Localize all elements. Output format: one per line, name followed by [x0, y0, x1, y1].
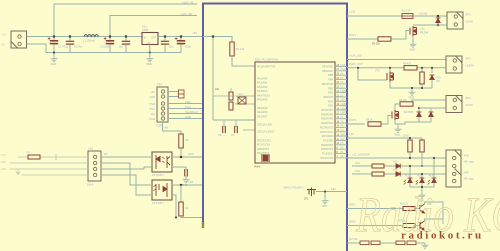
- ground sym JP1: [322, 199, 329, 204]
- svg-text:RB6/PGC: RB6/PGC: [322, 70, 333, 73]
- wire R10 bottom: [409, 152, 411, 158]
- svg-text:R3: R3: [185, 138, 189, 142]
- svg-text:C3 100u: C3 100u: [100, 45, 111, 49]
- wire XP1 pin1: [168, 91, 179, 93]
- wire VT4 collector: [425, 202, 444, 224]
- wire XP4 pin2 diodes: [419, 107, 446, 109]
- svg-text:XP5: XP5: [464, 153, 469, 157]
- ground sym leds: [419, 193, 426, 198]
- svg-text:PGM: PGM: [149, 118, 155, 121]
- svg-text:PGC: PGC: [341, 69, 346, 71]
- svg-text:22p: 22p: [215, 88, 220, 91]
- svg-text:R9 1k: R9 1k: [366, 119, 373, 122]
- resistor R9: [368, 122, 381, 126]
- svg-text:RC4/SDI: RC4/SDI: [323, 139, 333, 142]
- svg-text:PGC: PGC: [150, 108, 156, 111]
- svg-text:RD2/PSP2: RD2/PSP2: [321, 148, 334, 151]
- svg-text:C2 0u1: C2 0u1: [74, 45, 83, 49]
- svg-text:RB2: RB2: [328, 87, 333, 90]
- resistor R12: [372, 164, 384, 168]
- svg-text:Vpp/MCLR: Vpp/MCLR: [185, 110, 198, 114]
- svg-text:U3 PC817: U3 PC817: [152, 201, 165, 205]
- capacitor C5: [164, 37, 166, 42]
- svg-text:+5V: +5V: [341, 100, 346, 102]
- svg-text:DA1: DA1: [142, 25, 148, 29]
- svg-text:4MHz: 4MHz: [254, 166, 261, 169]
- wire gate tap VT2: [358, 68, 387, 80]
- wire LED2 out: [347, 225, 403, 227]
- capacitor C3 electrolytic: [109, 37, 111, 41]
- svg-text:RC3/SCK: RC3/SCK: [322, 153, 333, 156]
- wire +5V tap rail: [110, 16, 197, 37]
- svg-text:RXD: RXD: [188, 152, 194, 156]
- wire +5V inside: [203, 37, 213, 121]
- diode VD1: [437, 16, 439, 25]
- resistor R5 gate: [378, 37, 391, 41]
- connector XP5 4pin: [446, 150, 461, 187]
- svg-text:100u: 100u: [185, 45, 191, 49]
- watermark Radio KOT outline: [355, 186, 500, 242]
- diode VD6: [396, 172, 400, 177]
- wire JP1 gnd branch: [324, 192, 326, 199]
- svg-text:OSC1/CLKIN: OSC1/CLKIN: [257, 124, 272, 127]
- MCU DD1 box: [255, 62, 335, 163]
- capacitor C7: [185, 169, 188, 176]
- svg-text:R4: R4: [185, 206, 189, 210]
- resistor R2a: [229, 92, 233, 100]
- wire osc2: [248, 129, 255, 131]
- wire zv to gnd: [416, 242, 425, 244]
- svg-text:RB5: RB5: [328, 74, 333, 77]
- resistor R7 pulldown: [421, 68, 423, 72]
- resistor on cable: [28, 155, 40, 159]
- svg-text:LOAD: LOAD: [466, 19, 473, 23]
- svg-text:7805: 7805: [142, 28, 148, 32]
- svg-text:ZV: ZV: [341, 95, 344, 97]
- diode VD4: [430, 108, 432, 112]
- svg-text:GND: GND: [146, 62, 152, 66]
- wire X1 pin2 to ground rail: [27, 44, 182, 53]
- zener VD2: [431, 68, 433, 73]
- svg-text:+12V: +12V: [349, 10, 356, 14]
- resistor R4 below U3: [180, 185, 182, 202]
- ground sym block2: [411, 88, 413, 90]
- svg-text:XP1: XP1: [157, 83, 163, 87]
- rail block2 gnd: [390, 82, 432, 89]
- svg-text:+5V: +5V: [192, 31, 197, 35]
- svg-text:VD6: VD6: [393, 169, 398, 172]
- svg-text:RC1/T1OSI: RC1/T1OSI: [257, 144, 270, 147]
- diode VD3: [418, 108, 420, 112]
- resistor R16: [360, 241, 369, 245]
- svg-text:GND: GND: [321, 204, 327, 208]
- wire R5 to gate: [391, 31, 410, 40]
- transistor VT5: [420, 221, 425, 230]
- fuse FU1: [402, 14, 413, 19]
- mosfet VT2: [387, 72, 394, 82]
- svg-text:MCLR/VPP/THV: MCLR/VPP/THV: [257, 66, 276, 69]
- svg-text:GND: GND: [408, 96, 414, 100]
- svg-text:RC7/RX/DT: RC7/RX/DT: [320, 126, 334, 129]
- wire gate OUT3: [347, 123, 365, 125]
- svg-text:RXD: RXD: [1, 161, 6, 164]
- svg-text:VT2: VT2: [375, 70, 380, 73]
- svg-text:VDD: VDD: [328, 100, 333, 103]
- svg-text:+5V: +5V: [349, 132, 354, 136]
- wire R15 to VT5: [415, 225, 420, 227]
- svg-text:+12V(A): +12V(A): [418, 13, 427, 16]
- wire branch to R1: [213, 37, 232, 43]
- svg-text:radiokot.ru: radiokot.ru: [401, 230, 484, 242]
- wire X1 pin1 to rail: [27, 36, 143, 38]
- svg-text:TXD: TXD: [188, 180, 193, 184]
- wire SK2 line: [352, 173, 446, 175]
- svg-text:RX: RX: [341, 126, 345, 128]
- wire SK1 line: [352, 165, 446, 167]
- wire R1 to MCLR: [232, 56, 255, 66]
- svg-text:CK: CK: [341, 130, 345, 132]
- resistor R11: [421, 138, 423, 140]
- svg-text:DD1 PIC16F876A: DD1 PIC16F876A: [255, 58, 278, 62]
- wire osc: [213, 119, 255, 121]
- wire +5V pullup rail: [347, 137, 422, 139]
- svg-text:R5 100: R5 100: [372, 43, 380, 46]
- svg-text:OUT3: OUT3: [349, 118, 357, 122]
- sheet border: [203, 4, 347, 251]
- ground sym block3: [397, 124, 399, 127]
- svg-text:CK1: CK1: [355, 162, 360, 165]
- svg-text:GND: GND: [341, 104, 346, 106]
- svg-text:SDI: SDI: [341, 139, 345, 141]
- wire XP4 pin1: [412, 100, 446, 104]
- resistor R6: [404, 66, 417, 70]
- svg-text:CMOS JP1(KEY): CMOS JP1(KEY): [283, 185, 304, 189]
- inductor L1: [84, 35, 98, 37]
- svg-text:RC0/T1OSO: RC0/T1OSO: [257, 140, 271, 143]
- cable shield mark: [55, 154, 57, 160]
- wire DA1 gnd: [149, 45, 151, 53]
- svg-text:OUT: OUT: [151, 37, 157, 40]
- connector XP2: [447, 12, 463, 29]
- svg-text:VD5: VD5: [393, 161, 398, 164]
- wire U2 out to MCU RXD: [172, 156, 203, 158]
- svg-text:IN: IN: [143, 37, 146, 40]
- svg-text:RC2/CCP1: RC2/CCP1: [321, 157, 334, 160]
- svg-text:GND: GND: [50, 62, 56, 66]
- svg-text:+12V_LED: +12V_LED: [349, 53, 362, 57]
- wire JP1 to border: [316, 191, 347, 193]
- wire U2 emitter to gnd cap: [172, 167, 186, 171]
- svg-text:(10k): (10k): [403, 134, 409, 137]
- svg-text:PWM: PWM: [341, 91, 347, 93]
- wire XP1 pin6: [168, 118, 203, 120]
- led HL2: [421, 174, 423, 178]
- svg-text:FU1 5A: FU1 5A: [402, 10, 411, 13]
- svg-text:RB3/PGM: RB3/PGM: [322, 83, 333, 86]
- svg-text:GND: GND: [146, 43, 151, 45]
- svg-text:TXD: TXD: [1, 154, 6, 157]
- svg-text:GND: GND: [409, 48, 415, 52]
- svg-text:U2 PC817: U2 PC817: [152, 173, 165, 177]
- svg-text:XS1: XS1: [88, 147, 94, 151]
- wire ra wires: [213, 95, 255, 97]
- svg-text:RX: RX: [104, 152, 108, 156]
- wire R4 to border: [181, 216, 203, 218]
- jumper JP1: [307, 188, 316, 197]
- wire gate OUT1: [347, 38, 378, 40]
- svg-text:PGD: PGD: [185, 100, 191, 104]
- svg-text:XP6: XP6: [464, 170, 469, 174]
- wire ZV out: [347, 242, 360, 244]
- connector XP1 ICSP: [157, 87, 168, 122]
- wire R11 bottom: [421, 152, 423, 166]
- svg-text:SDO: SDO: [341, 134, 346, 136]
- capacitor C6 electrolytic: [180, 37, 182, 41]
- svg-text:R8 10k: R8 10k: [399, 99, 408, 102]
- svg-text:R*: R*: [27, 152, 30, 155]
- svg-text:C1 470u: C1 470u: [58, 45, 69, 49]
- svg-text:IRF7805: IRF7805: [404, 111, 414, 114]
- svg-text:GND: GND: [394, 133, 400, 137]
- svg-text:+12_(+5)HAGP: +12_(+5)HAGP: [352, 152, 370, 156]
- svg-text:L1 100uH: L1 100uH: [83, 39, 95, 43]
- mosfet VT1: [410, 26, 417, 36]
- wire +12V top rail: [54, 4, 197, 37]
- svg-text:LED1: LED1: [349, 203, 356, 207]
- crystal sym inside MCU: [262, 154, 269, 162]
- svg-text:+12V_OK: +12V_OK: [180, 12, 192, 16]
- optocoupler U2: [152, 152, 172, 172]
- svg-text:0u1: 0u1: [119, 45, 124, 49]
- wire R8 to VT3 drain: [395, 104, 400, 110]
- svg-text:PGC: PGC: [185, 105, 191, 109]
- wire VT5 collector: [425, 219, 444, 221]
- wire R9 to gate: [381, 116, 392, 125]
- wire VT2 drain: [389, 68, 391, 72]
- svg-text:ZQ1: ZQ1: [238, 93, 243, 96]
- svg-text:RA0/AN0: RA0/AN0: [257, 78, 268, 81]
- wire XS1 pin2 to U3: [101, 163, 152, 185]
- svg-text:RA4/T0CKI: RA4/T0CKI: [257, 94, 270, 97]
- svg-text:RC5/SDO: RC5/SDO: [322, 135, 333, 138]
- svg-text:RD7/PSP7: RD7/PSP7: [321, 109, 334, 112]
- svg-text:LENTA: LENTA: [466, 63, 475, 67]
- svg-text:RB7/PGD: RB7/PGD: [322, 66, 333, 69]
- resistor R17: [371, 241, 380, 245]
- svg-text:Vkl. nagr.: Vkl. nagr.: [464, 159, 475, 163]
- svg-text:IRLZ44: IRLZ44: [420, 31, 429, 34]
- svg-text:RC6/TX/CK: RC6/TX/CK: [320, 131, 333, 134]
- svg-text:DB-9: DB-9: [87, 183, 94, 187]
- ground sym U2: [185, 176, 187, 178]
- wire block3 lower rail: [419, 117, 431, 122]
- svg-text:JP1: JP1: [304, 198, 309, 201]
- svg-text:GND: GND: [149, 96, 155, 99]
- svg-text:0V: 0V: [2, 43, 5, 47]
- svg-text:RA3/AN3: RA3/AN3: [257, 90, 268, 93]
- svg-text:HL3: HL3: [429, 176, 434, 178]
- svg-text:RD4/PSP4: RD4/PSP4: [321, 122, 334, 125]
- wire R14 to VT4: [415, 208, 420, 210]
- svg-text:PGD: PGD: [150, 103, 156, 106]
- svg-text:+5V: +5V: [150, 91, 155, 94]
- transistor VT4: [420, 204, 425, 213]
- svg-text:LED2: LED2: [349, 220, 356, 224]
- svg-text:R1 10k: R1 10k: [236, 47, 245, 51]
- svg-text:XP4: XP4: [466, 96, 472, 100]
- resistor R18: [396, 241, 405, 245]
- svg-text:RA2/AN2: RA2/AN2: [257, 86, 268, 89]
- svg-text:RD3/PSP3: RD3/PSP3: [321, 144, 334, 147]
- svg-text:PWM_OUT: PWM_OUT: [349, 62, 363, 66]
- svg-text:RD0/PSP0: RD0/PSP0: [257, 148, 270, 151]
- wire +12V out: [347, 15, 402, 17]
- capacitor C4: [125, 37, 127, 42]
- led HL3: [433, 158, 435, 178]
- wire XP1 pin5 Vpp: [168, 113, 203, 115]
- capacitor C1 electrolytic: [53, 37, 55, 41]
- svg-text:TX: TX: [341, 121, 344, 123]
- svg-text:RA1/AN1: RA1/AN1: [257, 82, 268, 85]
- wire XP1 pin4 PGC: [168, 108, 203, 110]
- connector XS1 RS232: [88, 151, 101, 181]
- wire XP1 pin2: [168, 96, 179, 98]
- wire +12V LED out: [347, 59, 446, 61]
- svg-text:HL1: HL1: [405, 176, 410, 178]
- svg-text:RE2/AN7: RE2/AN7: [257, 115, 268, 118]
- wire LED1 out: [347, 208, 403, 210]
- svg-text:0u1: 0u1: [169, 45, 174, 49]
- capacitor C9: [235, 126, 238, 133]
- led HL1: [409, 166, 411, 178]
- resistor R14: [403, 207, 415, 211]
- svg-text:HL2: HL2: [417, 176, 422, 178]
- svg-text:12V: 12V: [2, 33, 7, 37]
- faint cable wires: [18, 156, 88, 158]
- wire R3 to U2: [180, 148, 182, 157]
- resistor R3: [179, 134, 183, 148]
- svg-text:LED2: LED2: [341, 113, 347, 115]
- connector XP3: [446, 56, 462, 73]
- svg-text:OUT2: OUT2: [466, 103, 474, 107]
- svg-text:PGD: PGD: [341, 65, 346, 67]
- svg-text:CK2: CK2: [355, 170, 360, 173]
- resistor R8: [400, 102, 413, 106]
- wire XS1 pin3 to U2 low: [101, 167, 152, 169]
- svg-text:Vpp: Vpp: [151, 113, 156, 116]
- resistor R2b: [229, 102, 233, 110]
- svg-text:ICSP: ICSP: [156, 124, 162, 128]
- jumper S1: [179, 90, 185, 98]
- connector X1 power jack: [11, 31, 27, 48]
- ground sym VT1: [410, 42, 417, 47]
- svg-text:RE1/AN6: RE1/AN6: [257, 111, 268, 114]
- svg-text:Vkl. nagr.: Vkl. nagr.: [464, 176, 475, 180]
- diode VD5: [396, 164, 400, 169]
- wire XP2 pin2 to VT1 drain: [413, 24, 447, 26]
- svg-text:RE0/AN5: RE0/AN5: [257, 107, 268, 110]
- ground sym DA1: [149, 53, 151, 57]
- regulator DA1 7805: [142, 33, 158, 45]
- wire fuse to XP2: [413, 15, 447, 17]
- wire U3 pin4: [172, 195, 176, 218]
- svg-text:XP2: XP2: [466, 12, 472, 16]
- svg-text:RD5/PSP5: RD5/PSP5: [321, 118, 334, 121]
- svg-text:RD6/PSP6: RD6/PSP6: [321, 113, 334, 116]
- connector XP4: [446, 96, 462, 113]
- svg-text:RB4: RB4: [328, 79, 333, 82]
- border end tick: [202, 222, 204, 228]
- svg-text:+12V_IN: +12V_IN: [182, 1, 193, 5]
- svg-text:GND: GND: [185, 115, 191, 119]
- rail led bottoms: [410, 183, 434, 187]
- wire DA1 out +5V: [158, 36, 203, 38]
- svg-text:RA5/AN4: RA5/AN4: [257, 99, 268, 102]
- ground sym input: [53, 53, 55, 57]
- svg-text:LED1: LED1: [341, 108, 347, 110]
- wire PWM line: [347, 67, 446, 69]
- wire U3 out to MCU TXD: [172, 184, 203, 186]
- svg-text:RB1: RB1: [328, 92, 333, 95]
- crystal ZQ1: [238, 97, 246, 104]
- wire XS1 pin1 to U2: [101, 156, 152, 158]
- resistor R10: [409, 138, 411, 140]
- capacitor C2: [69, 37, 71, 42]
- svg-text:OUT1: OUT1: [349, 33, 357, 37]
- svg-text:OSC2/CLKOUT: OSC2/CLKOUT: [257, 131, 275, 134]
- svg-text:GND: GND: [1, 168, 7, 171]
- wire VT1 source to gnd: [412, 36, 414, 42]
- svg-text:+5V: +5V: [164, 126, 169, 130]
- wire XS1 pin4 to U3 low: [101, 175, 152, 195]
- svg-text:R6 470: R6 470: [403, 62, 412, 65]
- wire +5V to R3: [163, 122, 182, 134]
- capacitor C8: [223, 126, 226, 133]
- chassis arrow: [16, 169, 20, 174]
- svg-text:VSS: VSS: [328, 105, 333, 108]
- mosfet VT3: [392, 110, 399, 120]
- resistor R13: [372, 172, 384, 176]
- wire +12 nagr line: [347, 157, 446, 159]
- ground sym zv: [422, 243, 429, 248]
- wire XP1 pin3 PGD: [168, 103, 203, 105]
- svg-text:RB0/INT: RB0/INT: [323, 96, 333, 99]
- resistor R19: [407, 241, 416, 245]
- resistor R15: [403, 224, 415, 228]
- svg-text:KEY: KEY: [331, 187, 336, 191]
- svg-text:XP3: XP3: [466, 56, 472, 60]
- svg-text:4V7: 4V7: [436, 80, 441, 83]
- resistor R1 MCLR pullup: [230, 42, 234, 56]
- optocoupler U3: [152, 180, 172, 200]
- wire mid zv: [380, 242, 396, 244]
